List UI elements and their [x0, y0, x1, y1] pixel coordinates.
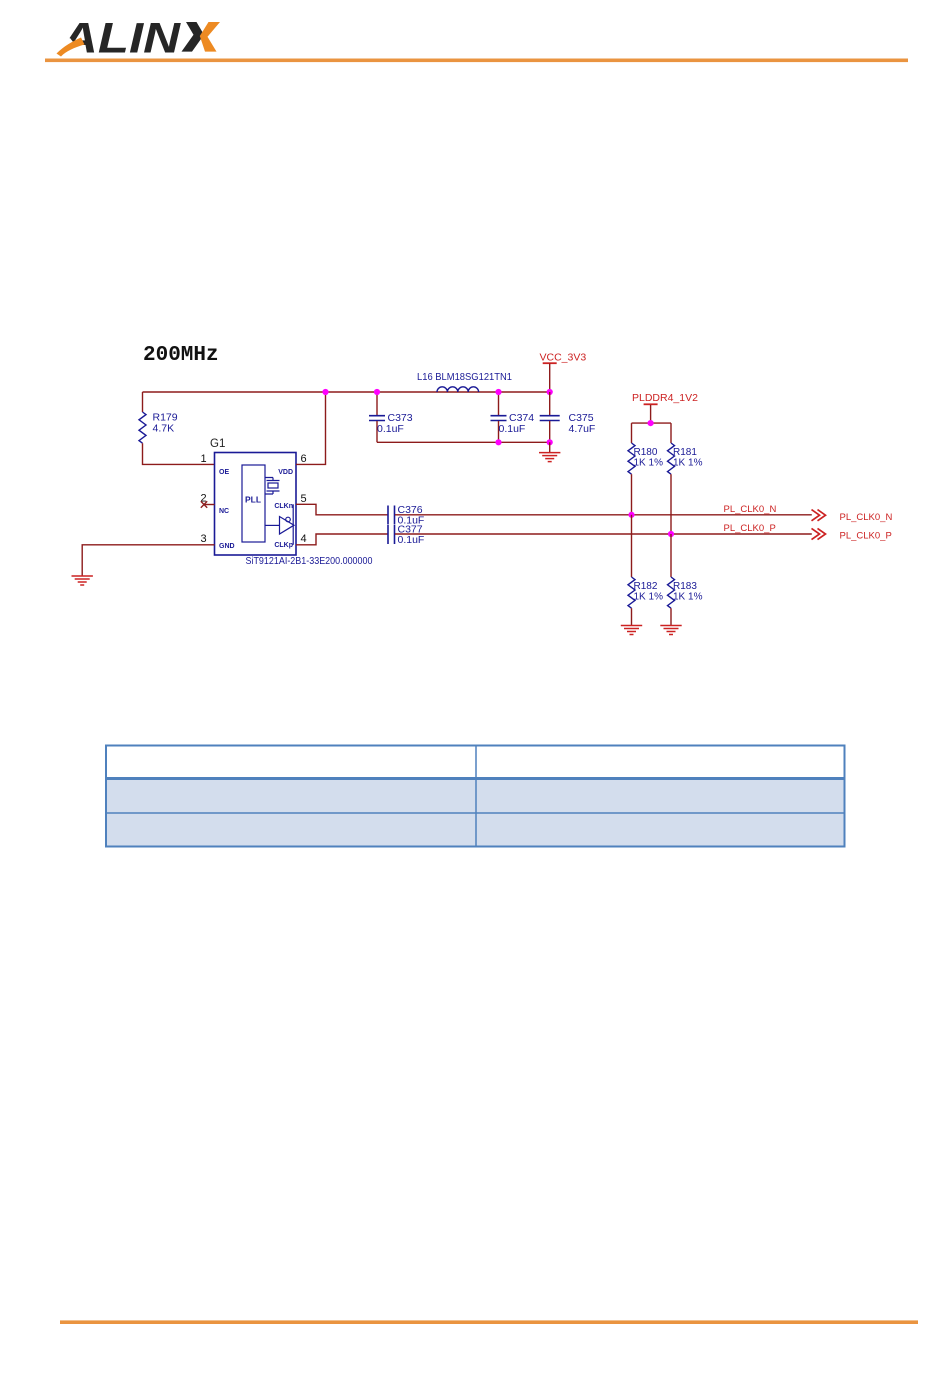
resistor R180: [628, 443, 635, 474]
wire: PL_CLK0_P down to R183: [670, 534, 672, 577]
no-connect X on pin 2: [201, 501, 207, 507]
junction: R180/PL_CLK0_N: [628, 512, 634, 518]
crystal symbol inside G1: [265, 478, 280, 495]
svg-text:R183: R183: [673, 581, 697, 592]
off-page connector PL_CLK0_N: [812, 510, 826, 521]
svg-text:G1: G1: [210, 438, 225, 450]
ALINX logo: [48, 16, 220, 63]
svg-text:L16 BLM18SG121TN1: L16 BLM18SG121TN1: [417, 371, 512, 383]
wire: R181 top: [670, 423, 672, 443]
resistor R179: [139, 412, 146, 443]
junction: C374/VCC rail: [495, 389, 501, 395]
resistor R183: [668, 577, 675, 608]
wire: top VCC rail: [143, 391, 550, 393]
junction: C373/VCC rail: [374, 389, 380, 395]
svg-text:1K 1%: 1K 1%: [634, 592, 664, 603]
capacitor C377: [388, 525, 395, 544]
svg-text:6: 6: [300, 453, 306, 465]
svg-text:3: 3: [200, 533, 206, 545]
svg-text:PL_CLK0_P: PL_CLK0_P: [840, 531, 892, 542]
svg-text:1K 1%: 1K 1%: [673, 458, 703, 469]
svg-text:NC: NC: [219, 508, 229, 515]
resistor R181: [668, 443, 675, 474]
junction: R181/PL_CLK0_P: [668, 531, 674, 537]
junction: C374/bottom rail: [495, 439, 501, 445]
wire: bottom rail to ground: [549, 442, 551, 452]
wire: left vertical above R179: [142, 392, 144, 412]
junction: VCC stem/rail: [547, 389, 553, 395]
svg-text:0.1uF: 0.1uF: [499, 423, 526, 435]
ground (C375): [539, 453, 560, 462]
svg-text:4: 4: [300, 533, 306, 545]
ground (R183): [660, 626, 681, 635]
wire: R179 bottom to pin 1: [143, 443, 215, 464]
wire: R182 bottom to ground: [631, 608, 633, 625]
junction: pin6/VCC rail: [322, 389, 328, 395]
svg-text:0.1uF: 0.1uF: [398, 534, 425, 546]
PLL block inside G1: [242, 465, 265, 542]
svg-text:VDD: VDD: [278, 469, 293, 476]
svg-text:R182: R182: [634, 581, 658, 592]
wire: decoupling bottom rail: [377, 441, 550, 443]
table: [106, 746, 845, 847]
capacitor C375: [549, 392, 551, 415]
svg-text:GND: GND: [219, 543, 235, 550]
wire: R180 top: [631, 423, 633, 443]
ground (pin 3): [72, 576, 93, 585]
wire: net PL_CLK0_N: [395, 514, 812, 516]
junction: PLDDR4 stem/top rail: [648, 420, 654, 426]
wire: pin 2 stub: [204, 504, 215, 506]
off-page connector PL_CLK0_P: [812, 528, 826, 539]
svg-text:R181: R181: [673, 447, 697, 458]
wire: pin 6 to VCC rail: [296, 392, 326, 464]
svg-text:200MHz: 200MHz: [143, 344, 219, 367]
wire: R183 bottom to ground: [670, 608, 672, 625]
wire: R181 bottom to PL_CLK0_P: [670, 474, 672, 534]
svg-text:1: 1: [200, 453, 206, 465]
inductor L16: [437, 387, 479, 392]
capacitor C373: [376, 392, 378, 415]
svg-text:CLKp: CLKp: [274, 542, 293, 549]
svg-text:SiT9121AI-2B1-33E200.000000: SiT9121AI-2B1-33E200.000000: [246, 555, 373, 567]
svg-text:CLKn: CLKn: [274, 503, 293, 510]
ground (R182): [621, 626, 642, 635]
svg-text:4.7K: 4.7K: [153, 423, 175, 435]
wire: net PL_CLK0_P: [395, 533, 812, 535]
capacitor C376: [388, 506, 395, 525]
junction: C375/bottom rail: [547, 439, 553, 445]
output buffer inside G1: [265, 504, 294, 545]
svg-text:5: 5: [300, 493, 306, 505]
svg-text:1K 1%: 1K 1%: [634, 458, 664, 469]
svg-text:VCC_3V3: VCC_3V3: [540, 352, 587, 364]
svg-text:0.1uF: 0.1uF: [377, 423, 404, 435]
svg-text:PL_CLK0_P: PL_CLK0_P: [724, 523, 776, 534]
oscillator G1 body: [215, 453, 297, 556]
capacitor C374: [498, 392, 500, 415]
wire: divider top rail: [632, 422, 672, 424]
wire: pin 5 to C376: [296, 504, 388, 515]
svg-text:1K 1%: 1K 1%: [673, 592, 703, 603]
wire: PL_CLK0_N down to R182: [631, 515, 633, 577]
svg-text:OE: OE: [219, 469, 229, 476]
wire: pin 3 to ground: [82, 545, 214, 576]
footer rule: [60, 1320, 918, 1324]
wire: R180 bottom to PL_CLK0_N: [631, 474, 633, 515]
svg-text:PLDDR4_1V2: PLDDR4_1V2: [632, 392, 698, 404]
resistor R182: [628, 577, 635, 608]
svg-text:R180: R180: [634, 447, 658, 458]
svg-text:PL_CLK0_N: PL_CLK0_N: [840, 512, 893, 523]
svg-text:4.7uF: 4.7uF: [569, 423, 596, 435]
svg-text:PLL: PLL: [245, 495, 261, 505]
svg-text:PL_CLK0_N: PL_CLK0_N: [724, 504, 777, 515]
header rule: [45, 59, 908, 63]
wire: pin 4 to C377: [296, 534, 388, 545]
